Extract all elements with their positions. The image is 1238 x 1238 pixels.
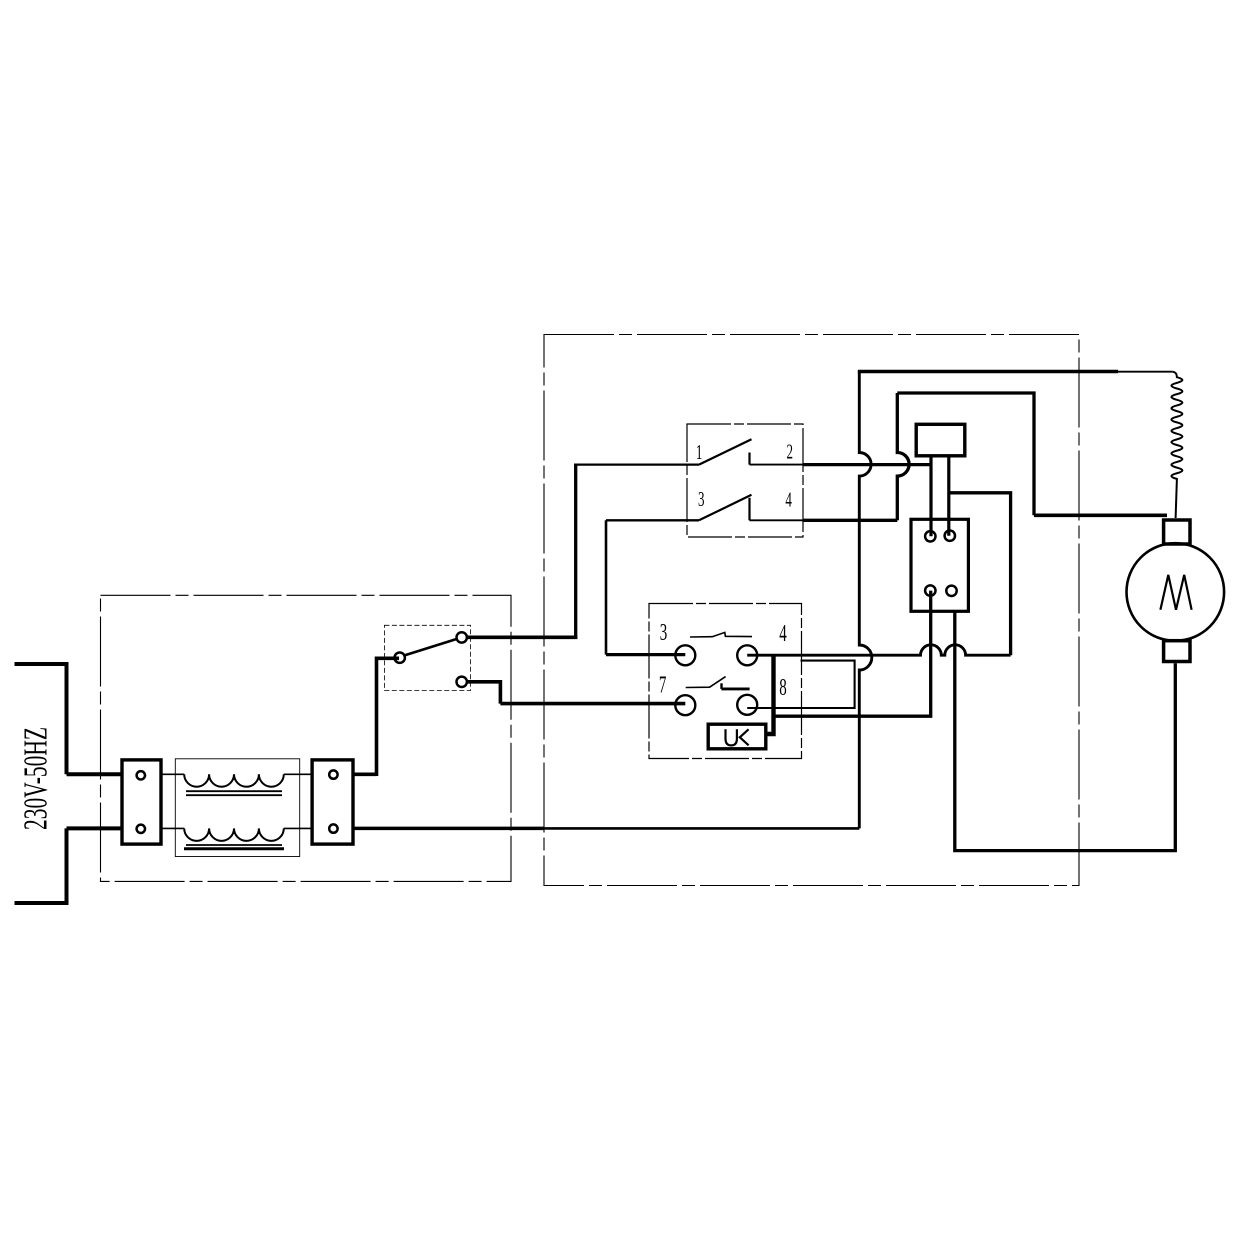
svg-text:3: 3	[698, 489, 705, 511]
motor terminal top	[1164, 520, 1190, 544]
K3 pin top-right	[945, 531, 955, 541]
wire L1 to X2 top	[284, 773, 312, 775]
wire riser x897 with hop	[897, 393, 909, 520]
undervoltage release U< box	[708, 724, 766, 749]
contact K2 3-4 blade	[690, 632, 752, 637]
terminal 4	[737, 645, 757, 665]
relay/door-lock box K3	[911, 519, 968, 611]
wire riser to contact 1	[574, 465, 577, 639]
switch S1 common contact	[395, 653, 405, 663]
inductor L1 top winding	[184, 774, 284, 786]
inductor L1 bottom core	[186, 844, 282, 846]
wire neutral riser with hops	[859, 372, 871, 829]
wire S1b jog	[467, 682, 500, 704]
wire contact2 out	[750, 464, 804, 466]
heater/field resistor squiggle	[1171, 372, 1182, 518]
contact K1 3-4 fixed	[748, 498, 750, 521]
wire supply L drop	[65, 662, 69, 774]
wire S1a to riser	[467, 635, 577, 639]
K3 pin top-left	[925, 531, 935, 541]
enclosure dashed box (filter unit)	[101, 595, 512, 881]
wire phase top run	[858, 370, 1118, 373]
wire X2 top to switch riser	[353, 772, 377, 776]
svg-text:4: 4	[779, 621, 787, 647]
inductor L1 top core	[186, 791, 282, 795]
switch S1 dotted box	[384, 625, 470, 690]
wire relay to motor	[955, 611, 1176, 850]
wire top jog to field	[897, 393, 1034, 515]
motor M1 body	[1127, 543, 1225, 641]
wire L1 to X2 bottom	[284, 827, 312, 829]
terminal 3	[675, 645, 695, 665]
wire terminal8 hook	[747, 661, 854, 708]
wire riser to switch S1	[377, 658, 400, 776]
svg-text:3: 3	[660, 620, 668, 646]
lead P1 right	[947, 456, 950, 536]
main dashed box (control unit)	[544, 335, 1079, 886]
svg-text:4: 4	[785, 489, 792, 511]
wire supply L into terminal block X1	[67, 772, 124, 776]
svg-text:230V-50HZ: 230V-50HZ	[18, 727, 55, 830]
wire S1b to contact 7	[500, 702, 685, 706]
wire riser x1010	[949, 493, 1011, 655]
motor M glyph	[1160, 575, 1191, 610]
switch S1 contact b	[457, 677, 467, 687]
K3 pin bottom-left	[925, 585, 935, 595]
switch S1 contact a	[457, 632, 467, 642]
wire X1 to L1 bottom	[161, 827, 184, 829]
wire supply L stub	[15, 662, 67, 666]
contact K1 1-2 fixed	[748, 453, 750, 465]
filter L1 box	[175, 759, 299, 857]
U glyph	[726, 729, 737, 745]
terminal block X1	[122, 760, 161, 844]
wire coil return (relay coil to trip link)	[774, 591, 931, 717]
wire contact3 left loop	[606, 519, 699, 521]
lead P1 left	[929, 456, 932, 537]
interlock K2 dashed box	[649, 604, 802, 759]
thick trip link from terminal-4 wire to U<	[766, 656, 774, 735]
motor terminal bottom	[1164, 641, 1190, 662]
protector box P1	[916, 424, 965, 456]
svg-text:2: 2	[787, 441, 794, 463]
contact K1 3-4 blade	[699, 495, 752, 521]
switch S1 blade	[405, 639, 457, 655]
terminal 8	[737, 695, 757, 715]
contact K1 1-2 blade	[699, 439, 752, 464]
terminal block X2	[312, 760, 353, 844]
wire supply N riser	[65, 828, 69, 905]
svg-text:1: 1	[696, 442, 703, 464]
terminal 7	[675, 695, 695, 715]
wire supply N stub	[15, 901, 67, 905]
switch K1 dashed box	[687, 424, 803, 537]
wire contact4 out	[750, 519, 804, 521]
inductor L1 bottom winding	[184, 828, 284, 840]
terminal X2 pin bottom	[329, 824, 337, 832]
contact K2 7-8 bar	[720, 683, 722, 689]
K3 pin bottom-right	[946, 586, 956, 596]
< glyph	[740, 729, 749, 745]
terminal X1 pin bottom	[137, 825, 145, 833]
wire X1 to L1 top	[161, 773, 184, 775]
wire terminal4 out with hops	[747, 645, 1010, 655]
wire supply N into terminal block X1	[67, 826, 124, 830]
contact K2 7-8 blade	[686, 677, 726, 688]
svg-text:7: 7	[659, 673, 667, 699]
terminal X2 pin top	[329, 770, 337, 778]
wire neutral bottom run	[353, 827, 544, 831]
terminal X1 pin top	[137, 771, 145, 779]
svg-text:8: 8	[779, 675, 787, 701]
